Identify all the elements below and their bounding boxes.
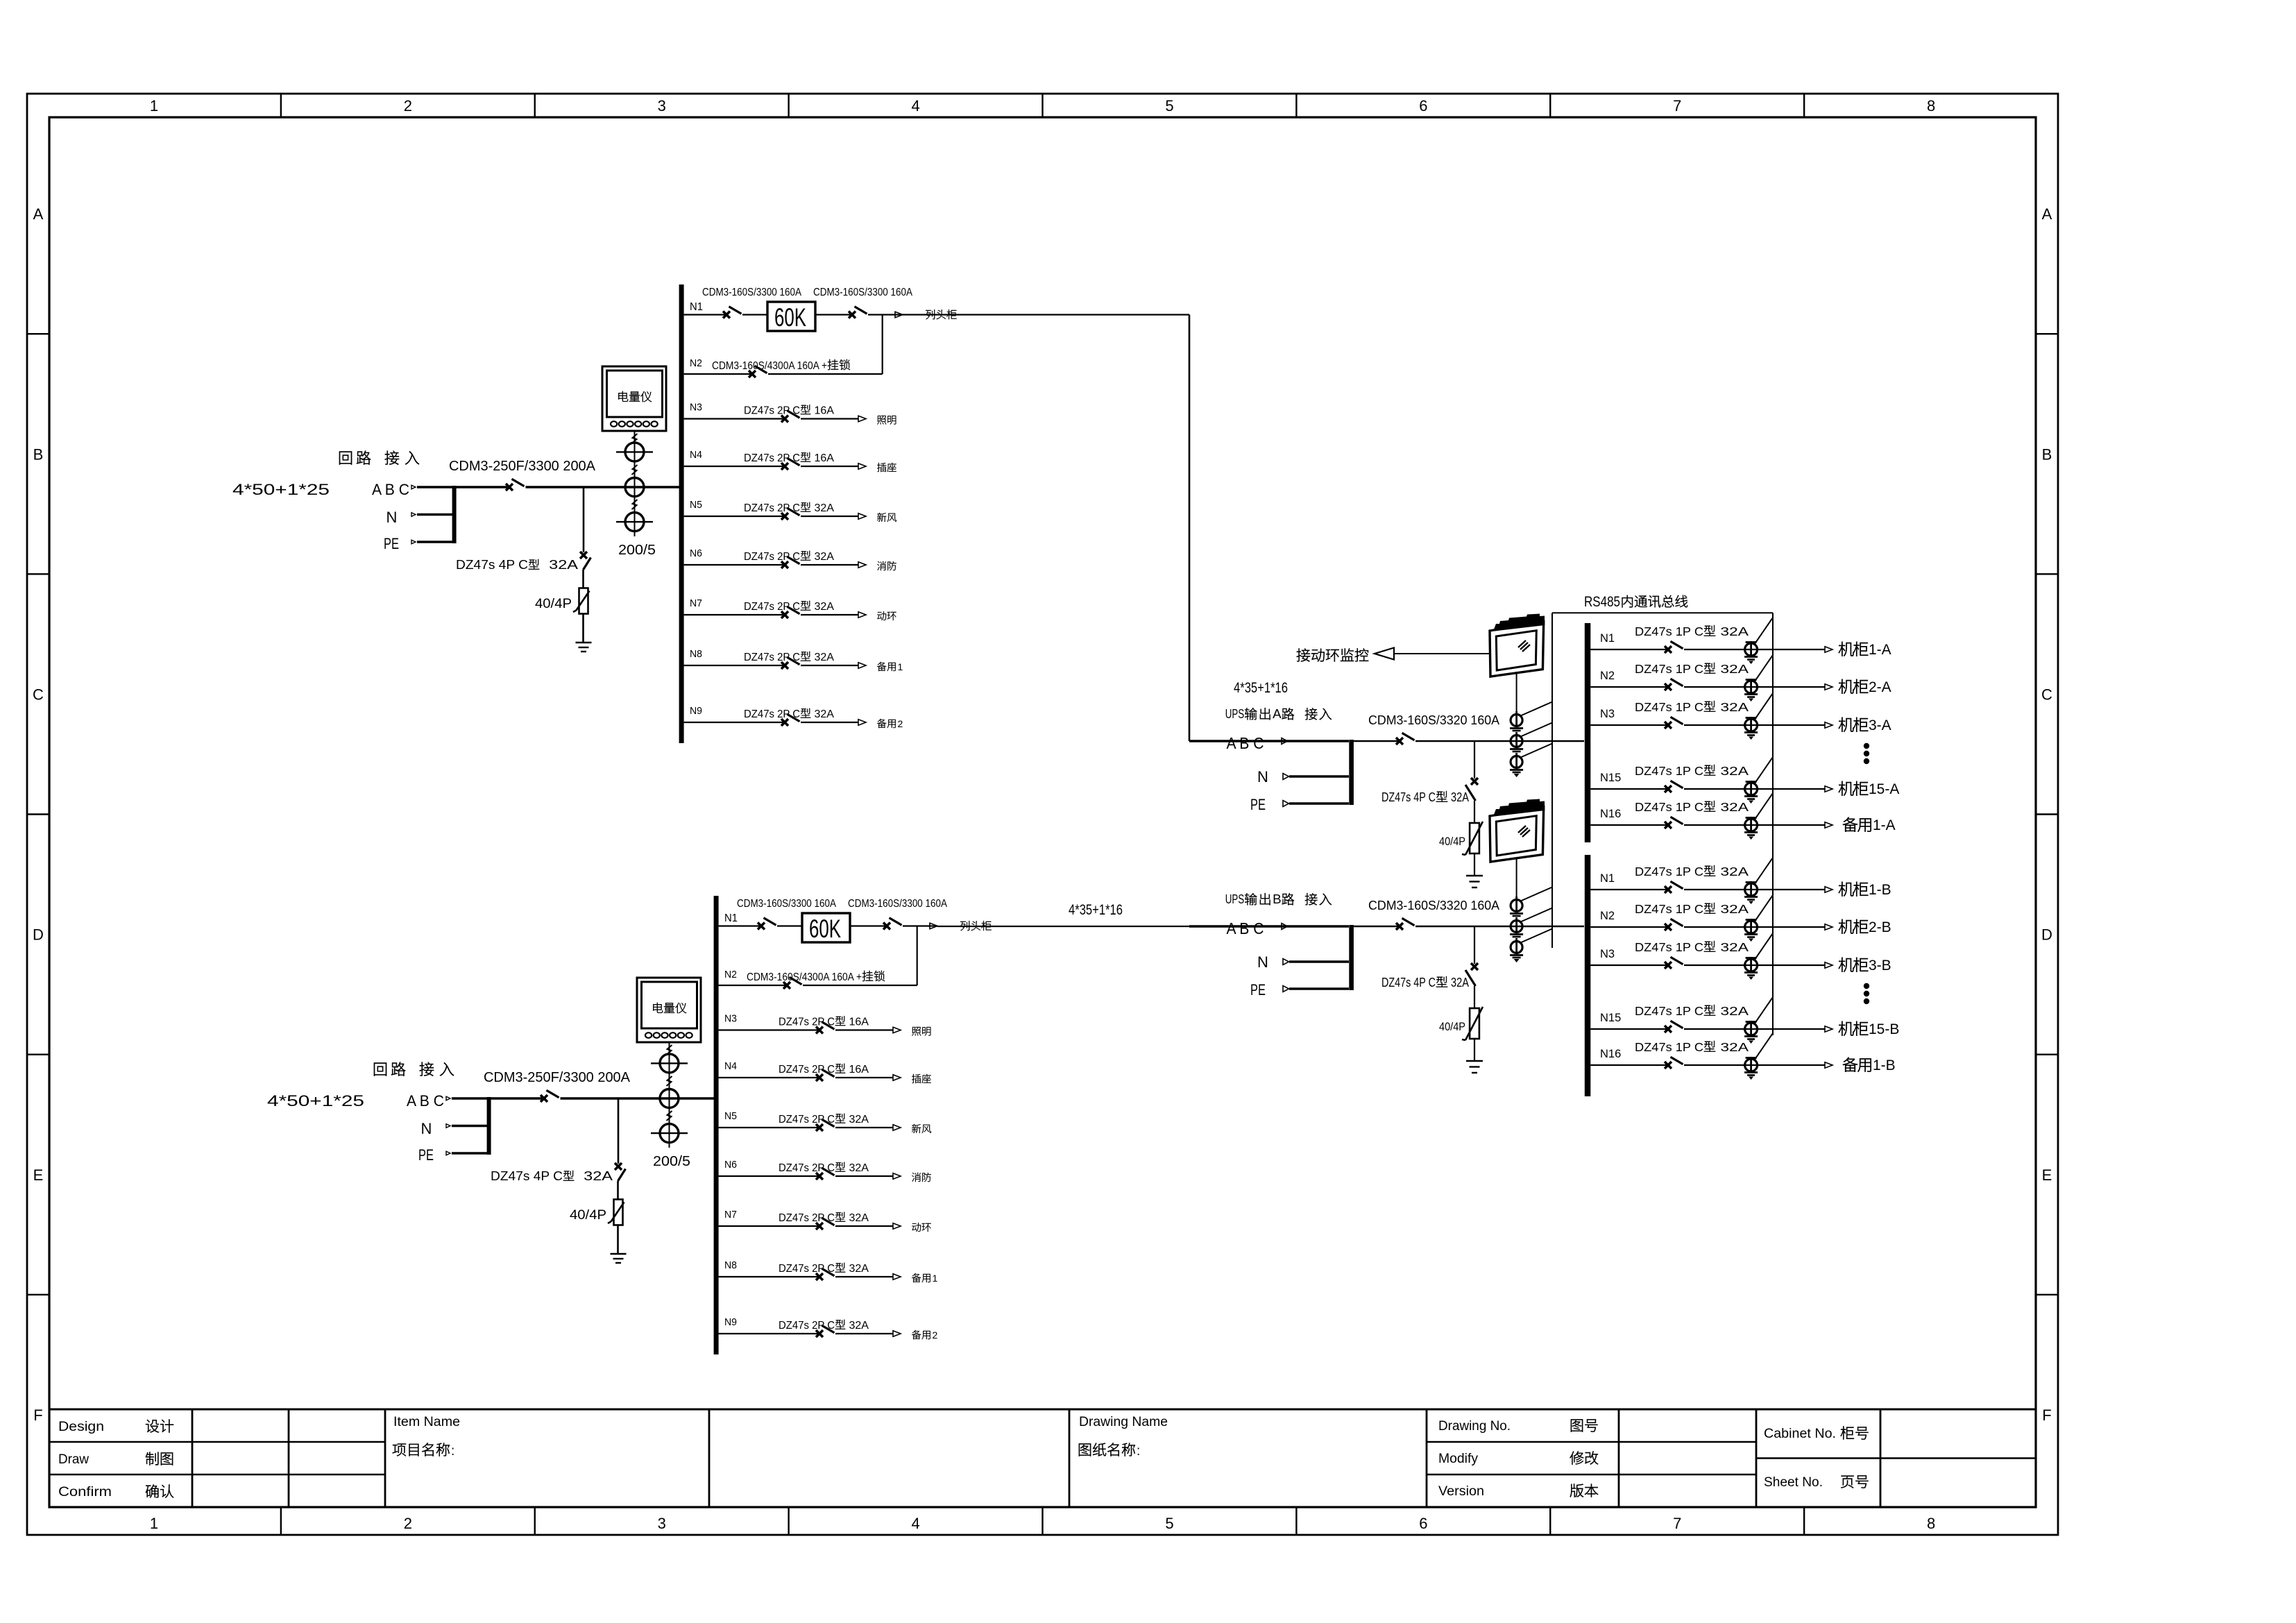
surge arrester branch DZ47s 4P 40/4P (UPS A): [1381, 741, 1483, 887]
input terminal arrows (A): [411, 485, 416, 489]
svg-text:N: N: [386, 509, 398, 526]
svg-text:DZ47s 2P C: DZ47s 2P C: [744, 405, 800, 417]
wires to tie bar (UPS B): [1289, 960, 1349, 962]
svg-text:2: 2: [898, 718, 903, 729]
wire to busbar (A): [526, 486, 682, 488]
svg-text:32A: 32A: [846, 1114, 869, 1125]
svg-text:N5: N5: [690, 499, 702, 511]
svg-text:D: D: [33, 926, 44, 944]
svg-text:N16: N16: [1600, 1048, 1621, 1060]
svg-text:N7: N7: [690, 597, 702, 609]
svg-text:5: 5: [1165, 97, 1173, 114]
feeder N3 DZ47s 2P 16A -> 照明 (B): [719, 1013, 931, 1036]
monitoring link 接动环监控: [1297, 648, 1489, 662]
wire N1-A to 列头柜 riser: [903, 314, 1189, 315]
svg-text:1: 1: [933, 1273, 938, 1284]
svg-text:N3: N3: [1600, 708, 1615, 720]
feeder N8 DZ47s 2P 32A -> 备用1 (A): [684, 648, 903, 672]
wires to tie bar (UPS A): [1289, 775, 1349, 777]
svg-text:N2: N2: [690, 357, 702, 369]
feeder N9 DZ47s 2P 32A -> 备用2 (A): [684, 705, 903, 729]
svg-text:N: N: [421, 1120, 432, 1137]
svg-text:B: B: [1273, 892, 1282, 906]
feeder N2 breaker CDM3-160S/4300A +挂锁 (A): [684, 315, 883, 378]
svg-text:6: 6: [1419, 1515, 1427, 1532]
wire to busbar (UPS A): [1415, 740, 1584, 742]
feeder N7 DZ47s 2P 32A -> 动环 (A): [684, 597, 896, 620]
svg-text:DZ47s 2P C: DZ47s 2P C: [744, 551, 800, 563]
svg-text:32A: 32A: [811, 652, 835, 663]
svg-text:DZ47s 2P C: DZ47s 2P C: [744, 452, 800, 464]
svg-text:Cabinet No.: Cabinet No.: [1764, 1427, 1836, 1441]
rack feeder N2 DZ47s 1P 32A -> 机柜2-B (B): [1590, 895, 1891, 942]
svg-text:C: C: [33, 686, 44, 703]
svg-text:60K: 60K: [774, 303, 806, 332]
ellipsis dots (A): [1864, 743, 1869, 749]
svg-text:CDM3-160S/3300 160A: CDM3-160S/3300 160A: [737, 898, 837, 910]
svg-text:DZ47s 2P C: DZ47s 2P C: [779, 1017, 835, 1028]
svg-text:DZ47s 1P C: DZ47s 1P C: [1635, 624, 1703, 638]
tie busbar (UPS B): [1349, 925, 1354, 990]
svg-text:32A: 32A: [846, 1263, 869, 1275]
svg-text:N16: N16: [1600, 808, 1621, 820]
circuit A input label 回路 接入: [339, 451, 371, 465]
svg-text:D: D: [2041, 926, 2052, 944]
feeder N6 DZ47s 2P 32A -> 消防 (A): [684, 547, 896, 570]
touchscreen monitor: [1490, 799, 1545, 863]
svg-text:N6: N6: [690, 547, 702, 559]
svg-text:B: B: [33, 445, 44, 463]
svg-text:32A: 32A: [1716, 662, 1749, 676]
svg-text:4*50+1*25: 4*50+1*25: [232, 481, 330, 498]
svg-text:N5: N5: [724, 1110, 737, 1122]
svg-text:32A: 32A: [846, 1212, 869, 1224]
wire N (B): [452, 1125, 487, 1128]
feeder N5 DZ47s 2P 32A -> 新风 (A): [684, 499, 896, 522]
svg-text:32A: 32A: [811, 551, 835, 563]
svg-text:N: N: [1257, 953, 1268, 971]
svg-text:40/4P: 40/4P: [1439, 1020, 1465, 1033]
svg-text:8: 8: [1927, 1515, 1935, 1532]
svg-text:N6: N6: [724, 1159, 737, 1171]
svg-text:32A: 32A: [1448, 976, 1469, 989]
svg-text:DZ47s 4P C: DZ47s 4P C: [1381, 976, 1436, 989]
input tie busbar (B): [487, 1097, 491, 1155]
feeder N8 DZ47s 2P 32A -> 备用1 (B): [719, 1259, 938, 1284]
svg-text:16A: 16A: [846, 1064, 869, 1076]
svg-text:Design: Design: [58, 1420, 104, 1434]
svg-text:DZ47s 1P C: DZ47s 1P C: [1635, 662, 1703, 676]
svg-text:Item Name: Item Name: [393, 1415, 460, 1429]
svg-text:N3: N3: [1600, 948, 1615, 960]
svg-text:2: 2: [933, 1329, 938, 1341]
svg-text:N9: N9: [690, 705, 702, 717]
svg-text:Modify: Modify: [1438, 1452, 1479, 1466]
svg-text:1-B: 1-B: [1873, 1057, 1896, 1073]
title block: [49, 1409, 2036, 1507]
svg-text:DZ47s 2P C: DZ47s 2P C: [779, 1114, 835, 1125]
rack feeder N2 DZ47s 1P 32A -> 机柜2-A (A): [1590, 655, 1891, 702]
svg-text:PE: PE: [1250, 796, 1266, 813]
svg-text:PE: PE: [1250, 981, 1266, 999]
svg-text:32A: 32A: [811, 708, 835, 720]
svg-text:CDM3-160S/3300 160A: CDM3-160S/3300 160A: [813, 287, 913, 298]
feeder N6 DZ47s 2P 32A -> 消防 (B): [719, 1159, 931, 1182]
svg-text:Version: Version: [1438, 1484, 1484, 1499]
svg-text:3-A: 3-A: [1869, 717, 1891, 733]
svg-text:N15: N15: [1600, 772, 1621, 784]
distribution busbar (A): [679, 284, 684, 743]
power meter 电量仪: [637, 978, 701, 1042]
svg-text:1-A: 1-A: [1869, 642, 1891, 658]
svg-text:N3: N3: [724, 1013, 737, 1025]
svg-text:RS485: RS485: [1584, 594, 1620, 610]
svg-text:CDM3-250F/3300 200A: CDM3-250F/3300 200A: [484, 1070, 631, 1085]
input arrows (UPS A): [1282, 738, 1288, 745]
svg-text:N9: N9: [724, 1316, 737, 1328]
input terminal arrows (B): [446, 1096, 450, 1101]
svg-text:32A: 32A: [1716, 1040, 1749, 1054]
svg-text:Drawing Name: Drawing Name: [1079, 1415, 1168, 1429]
feeder N2 breaker CDM3-160S/4300A +挂锁 (B): [719, 926, 917, 989]
svg-text:32A: 32A: [1716, 902, 1749, 916]
svg-text:DZ47s 2P C: DZ47s 2P C: [779, 1064, 835, 1076]
rack busbar B: [1585, 855, 1591, 1096]
rack feeder N3 DZ47s 1P 32A -> 机柜3-A (A): [1590, 693, 1891, 740]
svg-text::: :: [451, 1444, 454, 1459]
svg-text:N3: N3: [690, 402, 702, 414]
svg-text:1: 1: [150, 97, 158, 114]
svg-text:Drawing No.: Drawing No.: [1438, 1419, 1511, 1434]
svg-text:2-B: 2-B: [1869, 919, 1891, 935]
svg-text:40/4P: 40/4P: [535, 597, 572, 611]
svg-text:N2: N2: [724, 969, 737, 980]
svg-text:15-A: 15-A: [1869, 781, 1899, 797]
svg-text:DZ47s 4P C: DZ47s 4P C: [491, 1169, 563, 1183]
rack feeder N15 DZ47s 1P 32A -> 机柜15-A (A): [1590, 757, 1899, 804]
svg-text:DZ47s 2P C: DZ47s 2P C: [744, 502, 800, 514]
svg-text:N1: N1: [1600, 872, 1615, 885]
svg-text:32A: 32A: [811, 601, 835, 613]
svg-text:N8: N8: [724, 1259, 737, 1271]
surge arrester branch DZ47s 4P + 40/4P (B): [491, 1098, 627, 1263]
svg-text:UPS: UPS: [1225, 706, 1245, 721]
svg-text:16A: 16A: [811, 452, 835, 464]
svg-text:DZ47s 2P C: DZ47s 2P C: [744, 708, 800, 720]
svg-text:PE: PE: [384, 535, 399, 552]
svg-text:N: N: [1257, 768, 1268, 785]
svg-text:B: B: [2042, 445, 2052, 463]
feeder N9 DZ47s 2P 32A -> 备用2 (B): [719, 1316, 938, 1341]
distribution busbar (B): [714, 896, 719, 1354]
svg-text:PE: PE: [418, 1146, 434, 1164]
svg-text:32A: 32A: [811, 502, 835, 514]
svg-text:DZ47s 4P C: DZ47s 4P C: [456, 558, 528, 572]
svg-text:32A: 32A: [575, 1169, 613, 1183]
svg-text:1-B: 1-B: [1869, 882, 1891, 898]
svg-text:32A: 32A: [846, 1162, 869, 1174]
svg-text:3-B: 3-B: [1869, 958, 1891, 974]
svg-text:4: 4: [911, 1515, 919, 1532]
svg-text:CDM3-250F/3300 200A: CDM3-250F/3300 200A: [449, 459, 596, 474]
tie busbar (UPS A): [1349, 740, 1354, 805]
svg-text:32A: 32A: [846, 1320, 869, 1332]
input tie busbar (A): [452, 486, 457, 543]
svg-text:N2: N2: [1600, 910, 1615, 922]
rack feeder N15 DZ47s 1P 32A -> 机柜15-B (B): [1590, 997, 1899, 1044]
svg-text:A: A: [2042, 205, 2052, 223]
feed wire through A B C (UPS B): [1189, 925, 1349, 927]
svg-text:16A: 16A: [846, 1017, 869, 1028]
svg-text:DZ47s 1P C: DZ47s 1P C: [1635, 865, 1703, 878]
wire N1-B to UPS B input: [937, 926, 1189, 927]
svg-text:60K: 60K: [809, 915, 841, 943]
rack feeder N1 DZ47s 1P 32A -> 机柜1-B (B): [1590, 858, 1891, 904]
svg-text:15-B: 15-B: [1869, 1021, 1899, 1037]
frame column/row reference bands: [27, 94, 2058, 1535]
svg-text:E: E: [2042, 1166, 2052, 1184]
svg-text:N8: N8: [690, 648, 702, 660]
wire N (A): [417, 513, 452, 516]
svg-text:CDM3-160S/3300 160A: CDM3-160S/3300 160A: [848, 898, 948, 910]
svg-text:A B C: A B C: [1227, 919, 1264, 937]
svg-text:A: A: [1273, 706, 1282, 721]
svg-text:40/4P: 40/4P: [1439, 835, 1465, 848]
wire N2 to N1 tie (A): [882, 315, 883, 375]
svg-text:N1: N1: [690, 301, 703, 313]
svg-text:F: F: [2042, 1407, 2051, 1424]
svg-text:4*35+1*16: 4*35+1*16: [1069, 902, 1123, 918]
circuit B input label 回路 接入: [374, 1062, 405, 1076]
rack feeder N1 DZ47s 1P 32A -> 机柜1-A (A): [1590, 618, 1891, 664]
feed wire through A B C (UPS A): [1189, 740, 1349, 742]
svg-text:DZ47s 1P C: DZ47s 1P C: [1635, 940, 1703, 954]
svg-text:DZ47s 1P C: DZ47s 1P C: [1635, 764, 1703, 778]
svg-text:1: 1: [150, 1515, 158, 1532]
touchscreen monitor: [1490, 614, 1545, 677]
svg-text:UPS: UPS: [1225, 892, 1245, 906]
power meter 电量仪: [602, 366, 666, 431]
svg-text:DZ47s 1P C: DZ47s 1P C: [1635, 800, 1703, 814]
svg-text:Draw: Draw: [58, 1452, 89, 1467]
svg-text:32A: 32A: [1716, 764, 1749, 778]
svg-text:1: 1: [898, 661, 903, 672]
svg-text:CDM3-160S/4300A 160A +: CDM3-160S/4300A 160A +: [712, 360, 827, 372]
ellipsis dots (B): [1864, 983, 1869, 989]
surge arrester branch DZ47s 4P + 40/4P (A): [456, 487, 592, 652]
svg-text:DZ47s 1P C: DZ47s 1P C: [1635, 700, 1703, 714]
svg-text:32A: 32A: [1716, 1004, 1749, 1018]
rack feeder N16 DZ47s 1P 32A -> 备用1-B (B): [1590, 1033, 1895, 1080]
feeder N7 DZ47s 2P 32A -> 动环 (B): [719, 1209, 931, 1232]
svg-text:4*35+1*16: 4*35+1*16: [1234, 680, 1288, 696]
svg-text:N4: N4: [690, 449, 702, 461]
svg-text:2: 2: [404, 1515, 412, 1532]
rack feeder N16 DZ47s 1P 32A -> 备用1-A (A): [1590, 793, 1895, 840]
feeder N1 breakers CDM3-160S/3300 160A + 60K isolator (A): [684, 287, 957, 332]
svg-text:N1: N1: [724, 912, 738, 924]
wire PE (A): [417, 541, 452, 543]
svg-text:7: 7: [1673, 97, 1681, 114]
svg-text:32A: 32A: [1716, 700, 1749, 714]
svg-text:DZ47s 2P C: DZ47s 2P C: [779, 1212, 835, 1224]
svg-text:A B C: A B C: [1227, 734, 1264, 752]
svg-text:Confirm: Confirm: [58, 1485, 112, 1499]
monitor CT stack (UPS B): [1510, 858, 1552, 962]
drawing frame inner border: [49, 117, 2036, 1507]
drawing frame outer border: [27, 94, 2058, 1535]
svg-text:N1: N1: [1600, 632, 1615, 645]
svg-text:DZ47s 2P C: DZ47s 2P C: [744, 601, 800, 613]
wire A B C (A): [417, 486, 452, 488]
svg-text:4: 4: [911, 97, 919, 114]
svg-text:3: 3: [658, 1515, 666, 1532]
current transformers 200/5 (B): [651, 1042, 690, 1169]
svg-text:2: 2: [404, 97, 412, 114]
svg-text:32A: 32A: [1716, 940, 1749, 954]
rack feeder N3 DZ47s 1P 32A -> 机柜3-B (B): [1590, 933, 1891, 980]
svg-text:A B C: A B C: [407, 1092, 444, 1110]
svg-text:200/5: 200/5: [618, 543, 656, 558]
svg-text:DZ47s 2P C: DZ47s 2P C: [779, 1162, 835, 1174]
svg-text:6: 6: [1419, 97, 1427, 114]
monitor CT stack (UPS A): [1510, 672, 1552, 777]
svg-text::: :: [1137, 1444, 1140, 1459]
svg-text:4*50+1*25: 4*50+1*25: [267, 1092, 364, 1110]
svg-text:CDM3-160S/3300 160A: CDM3-160S/3300 160A: [702, 287, 802, 298]
feeder N5 DZ47s 2P 32A -> 新风 (B): [719, 1110, 931, 1133]
svg-text:DZ47s 2P C: DZ47s 2P C: [779, 1320, 835, 1332]
svg-text:2-A: 2-A: [1869, 679, 1891, 695]
svg-text:A: A: [33, 205, 44, 223]
svg-text:200/5: 200/5: [653, 1154, 690, 1169]
feeder N3 DZ47s 2P 16A -> 照明 (A): [684, 402, 896, 425]
wire A B C (B): [452, 1097, 487, 1100]
svg-text:32A: 32A: [1448, 790, 1469, 804]
svg-text:5: 5: [1165, 1515, 1173, 1532]
wire PE (B): [452, 1152, 487, 1155]
svg-text:C: C: [2041, 686, 2052, 703]
svg-text:DZ47s 2P C: DZ47s 2P C: [744, 652, 800, 663]
svg-text:32A: 32A: [540, 558, 578, 572]
svg-text:N2: N2: [1600, 670, 1615, 682]
svg-text:7: 7: [1673, 1515, 1681, 1532]
svg-text:N7: N7: [724, 1209, 737, 1221]
wire to busbar (UPS B): [1415, 926, 1584, 928]
svg-text:F: F: [33, 1407, 42, 1424]
svg-text:DZ47s 4P C: DZ47s 4P C: [1381, 790, 1436, 804]
svg-text:A B C: A B C: [372, 481, 409, 498]
svg-text:32A: 32A: [1716, 624, 1749, 638]
svg-text:32A: 32A: [1716, 800, 1749, 814]
feeder N4 DZ47s 2P 16A -> 插座 (B): [719, 1060, 931, 1083]
svg-text:16A: 16A: [811, 405, 835, 417]
current transformers 200/5 (A): [616, 431, 656, 558]
svg-text:DZ47s 2P C: DZ47s 2P C: [779, 1263, 835, 1275]
svg-text:32A: 32A: [1716, 865, 1749, 878]
svg-text:CDM3-160S/3320 160A: CDM3-160S/3320 160A: [1368, 899, 1499, 912]
svg-text:N4: N4: [724, 1060, 737, 1072]
svg-text:E: E: [33, 1166, 44, 1184]
svg-text:40/4P: 40/4P: [570, 1208, 606, 1223]
RS485 communication bus: [1552, 594, 1773, 1035]
svg-text:Sheet No.: Sheet No.: [1764, 1475, 1823, 1490]
rack busbar A: [1585, 623, 1591, 842]
svg-text:8: 8: [1927, 97, 1935, 114]
feeder N4 DZ47s 2P 16A -> 插座 (A): [684, 449, 896, 472]
wire N2 to N1 tie (B): [917, 926, 918, 986]
svg-text:DZ47s 1P C: DZ47s 1P C: [1635, 902, 1703, 916]
svg-text:CDM3-160S/4300A 160A +: CDM3-160S/4300A 160A +: [747, 971, 862, 983]
svg-text:3: 3: [658, 97, 666, 114]
svg-text:DZ47s 1P C: DZ47s 1P C: [1635, 1040, 1703, 1054]
surge arrester branch DZ47s 4P 40/4P (UPS B): [1381, 926, 1483, 1073]
wire to busbar (B): [561, 1097, 717, 1100]
svg-text:1-A: 1-A: [1873, 817, 1896, 833]
input arrows (UPS B): [1282, 924, 1288, 930]
feeder N1 breakers CDM3-160S/3300 160A + 60K isolator (B): [719, 898, 992, 943]
svg-text:DZ47s 1P C: DZ47s 1P C: [1635, 1004, 1703, 1018]
svg-text:CDM3-160S/3320 160A: CDM3-160S/3320 160A: [1368, 713, 1499, 727]
svg-text:N15: N15: [1600, 1012, 1621, 1024]
